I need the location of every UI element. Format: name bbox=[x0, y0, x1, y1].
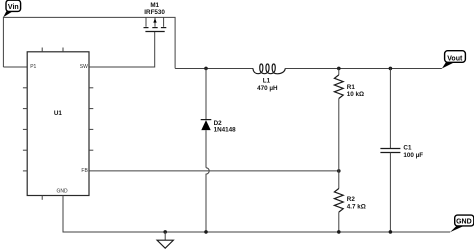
node dot R2 bottom bbox=[337, 230, 341, 234]
node dot D2 top bbox=[204, 67, 208, 71]
svg-text:U1: U1 bbox=[54, 110, 63, 117]
svg-text:GND: GND bbox=[57, 189, 69, 195]
svg-text:10 kΩ: 10 kΩ bbox=[347, 91, 364, 98]
node Vin bbox=[3, 0, 20, 17]
node dot R1 top bbox=[337, 67, 341, 71]
svg-text:Vin: Vin bbox=[8, 4, 19, 11]
op-amp U1 (IC box) bbox=[27, 52, 89, 196]
diode D2 bbox=[201, 68, 236, 167]
svg-text:C1: C1 bbox=[403, 145, 412, 152]
U1 bottom pin stub bbox=[41, 196, 43, 200]
node dot C1 top bbox=[389, 67, 393, 71]
node dot D2 bottom bbox=[204, 230, 208, 234]
svg-text:L1: L1 bbox=[263, 78, 271, 85]
wire switch node rail bbox=[175, 68, 253, 70]
wire FB to divider bbox=[89, 170, 339, 172]
node dot ground bbox=[163, 230, 167, 234]
wire D2 hop over FB wire bbox=[206, 168, 209, 232]
svg-text:P1: P1 bbox=[30, 64, 36, 70]
svg-text:M1: M1 bbox=[150, 2, 159, 9]
node dot C1 bottom bbox=[389, 230, 393, 234]
node Vout bbox=[442, 51, 466, 69]
svg-text:Vout: Vout bbox=[447, 55, 463, 62]
svg-text:100 µF: 100 µF bbox=[403, 152, 423, 159]
node GND bbox=[450, 215, 474, 232]
svg-text:GND: GND bbox=[456, 219, 472, 226]
U1 right pin stubs bbox=[89, 88, 93, 150]
capacitor C1 bbox=[380, 68, 423, 232]
inductor L1 bbox=[253, 64, 285, 92]
U1 left pin stubs bbox=[23, 88, 27, 171]
wire P1 lead bbox=[3, 66, 27, 68]
svg-text:R2: R2 bbox=[347, 196, 356, 203]
U1 top pin stubs bbox=[42, 48, 63, 52]
resistor R2 bbox=[334, 171, 365, 232]
node dot FB junction bbox=[337, 169, 341, 173]
resistor R1 bbox=[334, 68, 364, 170]
svg-text:R1: R1 bbox=[347, 84, 356, 91]
svg-text:470 µH: 470 µH bbox=[257, 85, 278, 92]
wire Vin top rail bbox=[3, 17, 175, 68]
svg-text:SW: SW bbox=[80, 64, 88, 70]
svg-text:FB: FB bbox=[81, 168, 88, 174]
wire SW to gate bbox=[89, 32, 155, 68]
ground bbox=[157, 232, 173, 248]
wire GND bottom rail bbox=[63, 196, 450, 233]
svg-text:4.7 kΩ: 4.7 kΩ bbox=[347, 203, 366, 210]
transistor M1 bbox=[144, 2, 167, 31]
svg-text:1N4148: 1N4148 bbox=[214, 127, 237, 134]
svg-text:IRF530: IRF530 bbox=[144, 9, 165, 16]
